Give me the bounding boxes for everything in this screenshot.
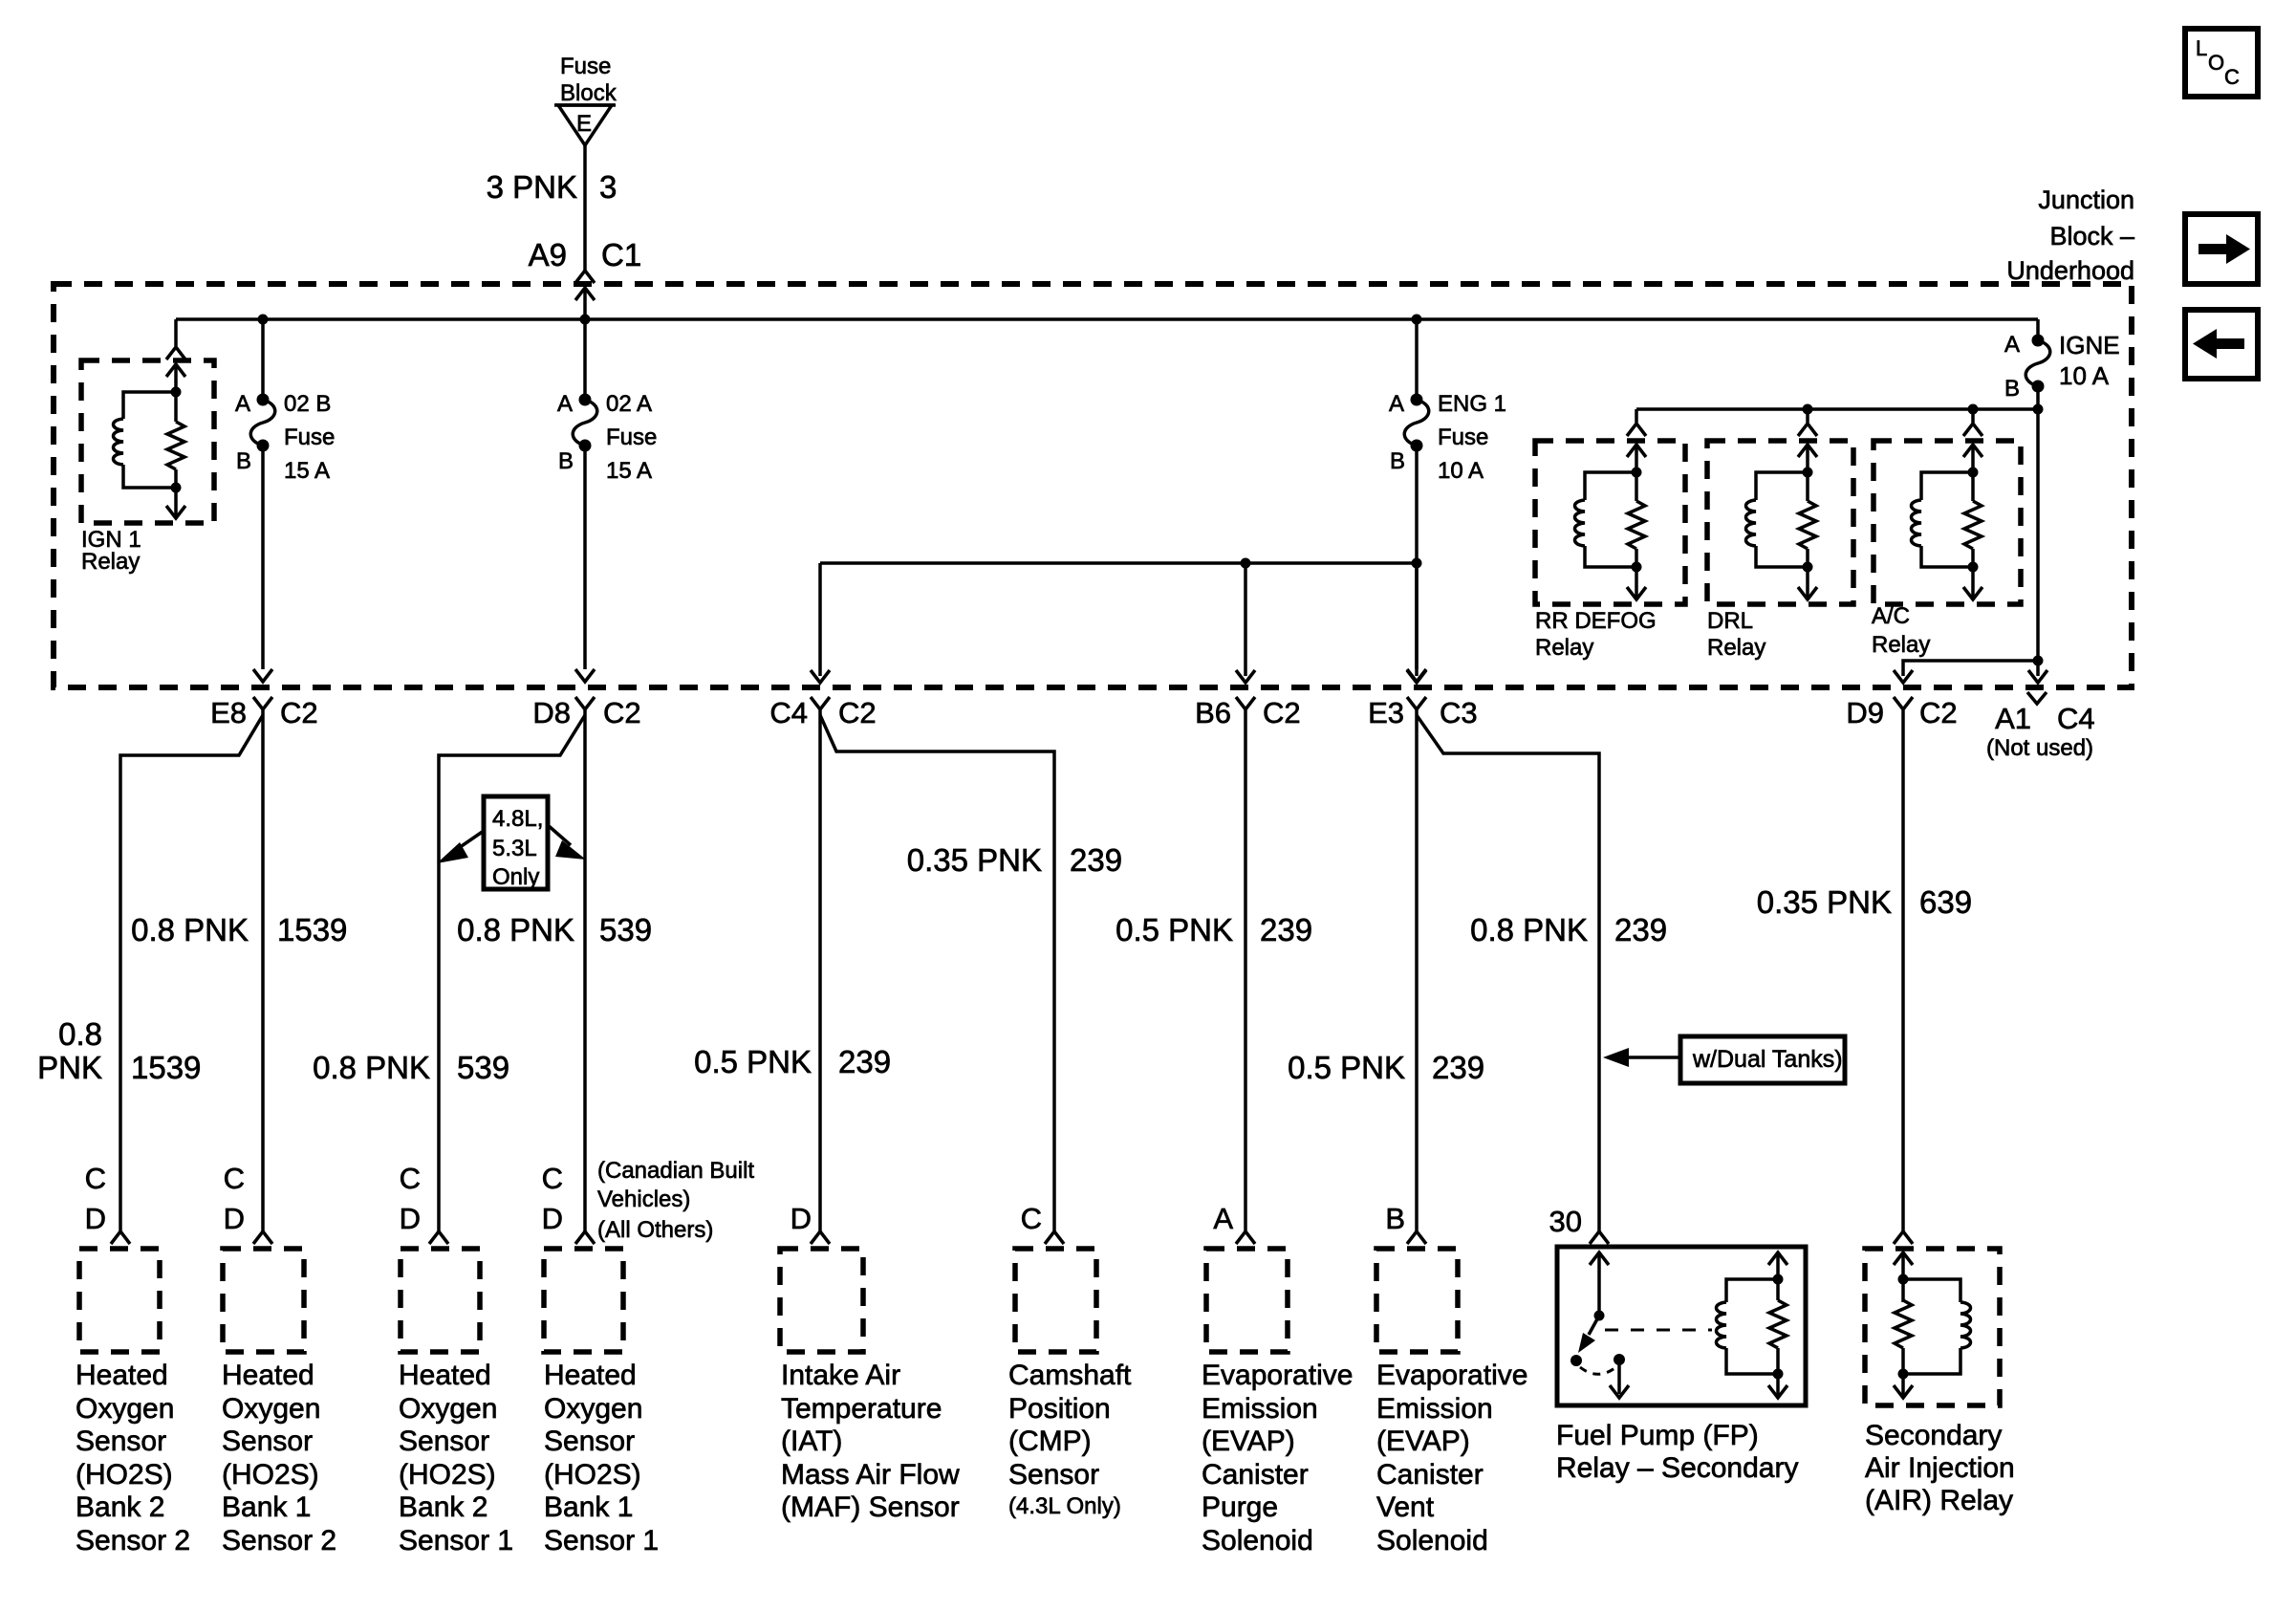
svg-text:639: 639 <box>1919 884 1972 920</box>
svg-text:10 A: 10 A <box>1438 458 1484 484</box>
svg-text:15 A: 15 A <box>606 458 652 484</box>
svg-text:Oxygen: Oxygen <box>544 1393 642 1425</box>
sensor entry chevron HO2S B1S1 <box>575 1231 595 1244</box>
svg-text:D: D <box>224 1202 245 1235</box>
connector A9 C1 labels <box>529 237 642 272</box>
svg-text:3 PNK: 3 PNK <box>487 169 577 205</box>
svg-text:Sensor: Sensor <box>222 1426 313 1457</box>
svg-text:3: 3 <box>599 169 617 205</box>
svg-text:239: 239 <box>1432 1050 1484 1085</box>
svg-text:Emission: Emission <box>1376 1393 1493 1425</box>
svg-text:RR DEFOG: RR DEFOG <box>1535 608 1657 634</box>
svg-text:Sensor: Sensor <box>399 1426 489 1457</box>
wire E3 to EVAP vent solenoid (straight) <box>1415 715 1419 1231</box>
svg-text:(MAF) Sensor: (MAF) Sensor <box>781 1491 960 1523</box>
svg-text:Bank 1: Bank 1 <box>222 1491 311 1523</box>
AIR relay internals <box>1894 1252 1971 1398</box>
RR DEFOG relay internals <box>1575 445 1647 599</box>
svg-text:30: 30 <box>1549 1205 1582 1238</box>
node bus to 02B fuse <box>258 315 269 325</box>
svg-text:ENG 1: ENG 1 <box>1438 391 1506 417</box>
connector D9/C2 labels <box>1846 696 1957 729</box>
IGN 1 relay internals <box>114 364 186 518</box>
relay entry chevron AIR <box>1894 1231 1913 1244</box>
svg-text:B: B <box>2004 376 2020 402</box>
svg-text:C2: C2 <box>838 696 877 729</box>
svg-text:B: B <box>1390 448 1405 474</box>
svg-text:Sensor 2: Sensor 2 <box>222 1525 336 1557</box>
svg-text:Sensor 2: Sensor 2 <box>76 1525 190 1557</box>
svg-text:Mass Air Flow: Mass Air Flow <box>781 1459 960 1491</box>
svg-text:0.5 PNK: 0.5 PNK <box>1288 1050 1405 1085</box>
wire drop to C4 connector <box>811 563 830 683</box>
svg-text:(EVAP): (EVAP) <box>1376 1426 1470 1457</box>
EVAP vent solenoid dashed box <box>1376 1249 1458 1352</box>
wire bus corner down to IGN 1 relay <box>166 319 185 359</box>
wire label 0.5 PNK 239 (IAT run) <box>694 1044 891 1079</box>
wire label 0.8 PNK 539 (B2S1 run) <box>313 1050 509 1085</box>
svg-text:15 A: 15 A <box>284 458 330 484</box>
svg-text:A: A <box>1389 391 1404 417</box>
AIR relay label <box>1865 1420 2015 1516</box>
svg-text:C: C <box>224 1162 245 1195</box>
svg-text:A: A <box>557 391 573 417</box>
connector E8/C2 labels <box>210 696 318 729</box>
fuse 02 A 15 A <box>557 319 657 682</box>
svg-text:Vehicles): Vehicles) <box>597 1186 690 1212</box>
fuse ENG 1 10 A <box>1389 319 1506 682</box>
svg-text:Emission: Emission <box>1202 1393 1318 1425</box>
svg-text:Oxygen: Oxygen <box>76 1393 174 1425</box>
svg-text:Relay: Relay <box>1535 635 1593 661</box>
HO2S bank1 sensor2 dashed box <box>223 1249 304 1352</box>
main ignition bus wire <box>176 317 2038 321</box>
svg-text:Bank 2: Bank 2 <box>76 1491 164 1523</box>
svg-text:Evaporative: Evaporative <box>1202 1360 1353 1391</box>
svg-text:Fuel Pump (FP): Fuel Pump (FP) <box>1556 1420 1759 1451</box>
svg-text:Sensor: Sensor <box>544 1426 635 1457</box>
svg-text:(All Others): (All Others) <box>597 1217 713 1243</box>
wire drop to A1 connector <box>2028 661 2047 683</box>
wire drop to A/C relay <box>1963 409 1982 436</box>
svg-text:DRL: DRL <box>1707 608 1753 634</box>
svg-text:A/C: A/C <box>1872 603 1910 629</box>
svg-text:w/Dual Tanks): w/Dual Tanks) <box>1692 1046 1843 1073</box>
svg-text:Fuse: Fuse <box>284 425 335 450</box>
svg-text:C: C <box>1021 1202 1042 1235</box>
svg-text:Block –: Block – <box>2049 222 2134 250</box>
FP relay coil <box>1717 1252 1788 1398</box>
IAT/MAF sensor dashed box <box>780 1249 863 1352</box>
svg-text:0.8 PNK: 0.8 PNK <box>1470 912 1588 947</box>
svg-text:C: C <box>2224 65 2240 89</box>
svg-text:Vent: Vent <box>1376 1491 1435 1523</box>
svg-text:0.8 PNK: 0.8 PNK <box>457 912 574 947</box>
note Canadian Built / All Others <box>597 1158 754 1243</box>
wire label 0.8 PNK 1539 (B2S2 run) <box>37 1016 201 1085</box>
HO2S bank2 sensor1 dashed box <box>401 1249 480 1352</box>
svg-text:539: 539 <box>599 912 652 947</box>
svg-text:B: B <box>558 448 574 474</box>
CMP sensor label <box>1008 1360 1132 1519</box>
connector D9/C2 fork <box>1894 697 1913 715</box>
svg-text:Temperature: Temperature <box>781 1393 942 1425</box>
svg-text:(HO2S): (HO2S) <box>76 1459 173 1491</box>
svg-text:(Canadian Built: (Canadian Built <box>597 1158 754 1184</box>
left arrow box icon <box>2185 310 2258 379</box>
HO2S bank2 sensor2 dashed box <box>79 1249 160 1352</box>
sensor entry chevron EVAP vent <box>1407 1231 1426 1244</box>
svg-text:10 A: 10 A <box>2059 361 2110 390</box>
wire C4 to CMP sensor (branch right) <box>820 715 1054 1231</box>
svg-text:Secondary: Secondary <box>1865 1420 2002 1451</box>
svg-text:Bank 1: Bank 1 <box>544 1491 633 1523</box>
sensor entry chevron HO2S B2S1 <box>429 1231 448 1244</box>
D9 branch wire from IGNE <box>1894 656 2044 684</box>
svg-text:1539: 1539 <box>277 912 347 947</box>
HO2S bank1 sensor1 label <box>544 1360 659 1557</box>
node bus to ENG1 fuse <box>1412 315 1422 325</box>
svg-text:Block: Block <box>560 80 617 106</box>
svg-text:(HO2S): (HO2S) <box>544 1459 641 1491</box>
svg-text:C: C <box>400 1162 421 1195</box>
svg-text:Position: Position <box>1008 1393 1111 1425</box>
IAT/MAF sensor label <box>781 1360 960 1523</box>
svg-text:Sensor 1: Sensor 1 <box>399 1525 513 1557</box>
svg-text:A: A <box>2004 332 2020 358</box>
connector C4/C2 fork <box>811 697 830 715</box>
svg-text:C4: C4 <box>769 696 808 729</box>
svg-text:D: D <box>791 1202 812 1235</box>
svg-text:Sensor 1: Sensor 1 <box>544 1525 659 1557</box>
wire C4 to IAT/MAF sensor (straight) <box>818 715 822 1231</box>
svg-text:C2: C2 <box>1919 696 1958 729</box>
svg-text:239: 239 <box>1070 842 1122 878</box>
svg-text:D8: D8 <box>532 696 571 729</box>
svg-text:(AIR) Relay: (AIR) Relay <box>1865 1485 2013 1516</box>
RR DEFOG relay label <box>1535 608 1657 661</box>
svg-text:Fuse: Fuse <box>606 425 657 450</box>
svg-text:4.8L,: 4.8L, <box>492 806 543 832</box>
svg-text:(IAT): (IAT) <box>781 1426 842 1457</box>
svg-text:A9: A9 <box>529 237 567 272</box>
svg-text:O: O <box>2208 51 2224 75</box>
HO2S bank1 sensor1 dashed box <box>544 1249 623 1352</box>
svg-text:(CMP): (CMP) <box>1008 1426 1092 1457</box>
FP relay switch <box>1570 1252 1712 1398</box>
connector D8/C2 labels <box>532 696 640 729</box>
svg-text:D: D <box>542 1202 563 1235</box>
svg-text:239: 239 <box>838 1044 891 1079</box>
wire label 0.35 PNK 639 (D9 run) <box>1757 884 1972 920</box>
Junction Block Underhood label <box>2006 185 2134 285</box>
svg-text:C: C <box>542 1162 563 1195</box>
svg-text:Relay: Relay <box>1872 632 1930 658</box>
svg-text:239: 239 <box>1260 912 1312 947</box>
wire label 3 PNK 3 <box>487 169 617 205</box>
svg-text:Camshaft: Camshaft <box>1008 1360 1132 1391</box>
wire drop to E3 connector <box>1407 563 1426 683</box>
connector E3/C3 fork <box>1407 697 1426 715</box>
svg-text:1539: 1539 <box>131 1050 201 1085</box>
svg-text:Junction: Junction <box>2038 185 2134 214</box>
svg-text:Oxygen: Oxygen <box>399 1393 497 1425</box>
svg-text:C2: C2 <box>603 696 641 729</box>
svg-text:Sensor: Sensor <box>1008 1459 1099 1491</box>
svg-text:Relay: Relay <box>1707 635 1765 661</box>
svg-text:IGNE: IGNE <box>2059 331 2120 359</box>
svg-text:D: D <box>85 1202 106 1235</box>
svg-text:(Not used): (Not used) <box>1986 735 2093 761</box>
connector B6/C2 labels <box>1195 696 1301 729</box>
sensor entry chevron HO2S B2S2 <box>111 1231 130 1244</box>
sensor entry chevron IAT/MAF <box>811 1231 830 1244</box>
svg-text:Heated: Heated <box>544 1360 637 1391</box>
fuse IGNE 10 A <box>2004 319 2120 661</box>
sensor entry chevron EVAP purge <box>1236 1231 1255 1244</box>
svg-text:Heated: Heated <box>222 1360 314 1391</box>
svg-text:Solenoid: Solenoid <box>1202 1525 1313 1557</box>
relay entry chevron FP 30 <box>1590 1231 1609 1244</box>
svg-text:A: A <box>235 391 250 417</box>
wire E8 to HO2S bank2 sensor2 (branch) <box>120 715 263 1231</box>
wire label 0.8 PNK 1539 (B1S2 run) <box>131 912 347 947</box>
svg-text:02 B: 02 B <box>284 391 331 417</box>
IGN 1 relay label <box>81 527 141 575</box>
right arrow box icon <box>2185 214 2258 284</box>
arrow into junction block at A9/C1 <box>575 288 595 319</box>
relay feed bus from IGNE <box>1636 404 2044 415</box>
svg-text:B: B <box>236 448 251 474</box>
svg-text:E: E <box>576 111 592 137</box>
sensor entry chevron HO2S B1S2 <box>253 1231 272 1244</box>
HO2S bank2 sensor2 label <box>76 1360 190 1557</box>
svg-text:E8: E8 <box>210 696 247 729</box>
svg-text:0.35 PNK: 0.35 PNK <box>907 842 1042 878</box>
ENG1 distribution bus to C4 B6 E3 <box>820 558 1422 569</box>
RR DEFOG relay dashed box <box>1535 441 1685 604</box>
svg-text:Oxygen: Oxygen <box>222 1393 320 1425</box>
pin labels C D (B2S1) <box>400 1162 421 1235</box>
connector B6/C2 fork <box>1236 697 1255 715</box>
connector C4/C2 labels <box>769 696 876 729</box>
svg-text:(4.3L Only): (4.3L Only) <box>1008 1493 1121 1519</box>
EVAP purge solenoid label <box>1202 1360 1353 1557</box>
svg-text:(EVAP): (EVAP) <box>1202 1426 1295 1457</box>
wire B6 to EVAP purge solenoid <box>1244 715 1247 1231</box>
svg-text:(HO2S): (HO2S) <box>222 1459 319 1491</box>
IGN 1 relay dashed box <box>81 360 214 523</box>
svg-text:239: 239 <box>1614 912 1667 947</box>
wire 3 PNK 3 from fuse block to junction block <box>583 145 587 271</box>
svg-text:Sensor: Sensor <box>76 1426 166 1457</box>
svg-text:Relay: Relay <box>81 549 140 575</box>
svg-text:Relay – Secondary: Relay – Secondary <box>1556 1452 1798 1484</box>
svg-text:Bank 2: Bank 2 <box>399 1491 487 1523</box>
svg-text:0.5 PNK: 0.5 PNK <box>694 1044 812 1079</box>
svg-text:D: D <box>400 1202 421 1235</box>
connector D8/C2 fork <box>575 697 595 715</box>
connector chevron at A9/C1 <box>575 271 595 283</box>
svg-text:E3: E3 <box>1368 696 1404 729</box>
svg-text:C4: C4 <box>2057 702 2095 735</box>
LOC box icon <box>2185 29 2258 97</box>
wire label 0.5 PNK 239 (B6 run) <box>1116 912 1312 947</box>
svg-text:Only: Only <box>492 864 539 890</box>
svg-text:Fuse: Fuse <box>560 54 611 79</box>
CMP sensor dashed box <box>1015 1249 1096 1352</box>
svg-text:0.8 PNK: 0.8 PNK <box>313 1050 430 1085</box>
wire label 0.8 PNK 539 (B1S1 run) <box>457 912 652 947</box>
wire D9 to AIR relay <box>1901 715 1905 1231</box>
EVAP vent solenoid label <box>1376 1360 1527 1557</box>
w/Dual Tanks callout <box>1603 1036 1845 1083</box>
pin labels C D (B1S2) <box>224 1162 245 1235</box>
wire E3 to FP relay (branch right) <box>1417 715 1599 1231</box>
A/C relay label <box>1872 603 1930 658</box>
sensor entry chevron CMP <box>1045 1231 1064 1244</box>
DRL relay label <box>1707 608 1765 661</box>
connector E3/C3 labels <box>1368 696 1478 729</box>
node bus to 02A fuse / A9 feed <box>580 315 591 325</box>
connector A1/C4 not used <box>1986 692 2095 761</box>
svg-text:(HO2S): (HO2S) <box>399 1459 496 1491</box>
svg-text:Heated: Heated <box>76 1360 168 1391</box>
wire drop to B6 connector <box>1236 563 1255 683</box>
svg-text:D9: D9 <box>1846 696 1884 729</box>
junction block dashed border <box>54 284 2132 687</box>
svg-text:Canister: Canister <box>1376 1459 1484 1491</box>
fuse block label <box>560 54 617 106</box>
wire drop to DRL relay <box>1798 409 1817 436</box>
svg-text:Evaporative: Evaporative <box>1376 1360 1527 1391</box>
pin labels C D (B2S2) <box>85 1162 106 1235</box>
AIR relay dashed box <box>1865 1249 2000 1405</box>
svg-text:A1: A1 <box>1995 702 2031 735</box>
svg-text:02 A: 02 A <box>606 391 652 417</box>
Fuel Pump relay box <box>1557 1247 1806 1405</box>
A/C relay internals <box>1912 445 1983 599</box>
wire D8 to HO2S bank1 sensor1 (straight) <box>583 715 587 1231</box>
svg-text:Intake Air: Intake Air <box>781 1360 900 1391</box>
pin labels C D (B1S1) <box>542 1162 563 1235</box>
svg-text:0.8 PNK: 0.8 PNK <box>131 912 249 947</box>
svg-text:Air Injection: Air Injection <box>1865 1452 2015 1484</box>
connector E8/C2 fork <box>253 697 272 715</box>
svg-text:Underhood: Underhood <box>2006 256 2134 285</box>
wire label 0.35 PNK 239 (CMP run) <box>907 842 1122 878</box>
A/C relay dashed box <box>1874 441 2021 604</box>
svg-text:0.35 PNK: 0.35 PNK <box>1757 884 1892 920</box>
svg-text:B6: B6 <box>1195 696 1231 729</box>
wire D8 to HO2S bank2 sensor1 (branch) <box>439 715 585 1231</box>
wire label 0.5 PNK 239 (E3 run) <box>1288 1050 1484 1085</box>
EVAP purge solenoid dashed box <box>1206 1249 1288 1352</box>
svg-text:C1: C1 <box>601 237 641 272</box>
fuse block triangle E <box>554 105 616 145</box>
svg-text:C2: C2 <box>280 696 318 729</box>
DRL relay dashed box <box>1707 441 1853 604</box>
wire label 0.8 PNK 239 (FP run) <box>1470 912 1667 947</box>
svg-text:L: L <box>2196 36 2207 60</box>
svg-text:5.3L: 5.3L <box>492 836 537 861</box>
svg-text:C3: C3 <box>1440 696 1478 729</box>
svg-text:C2: C2 <box>1263 696 1301 729</box>
4.8L 5.3L Only callout box <box>437 796 586 890</box>
wire E8 to HO2S bank1 sensor2 (straight) <box>261 715 265 1231</box>
Fuel Pump relay label <box>1556 1420 1798 1484</box>
svg-text:Canister: Canister <box>1202 1459 1309 1491</box>
svg-text:0.8: 0.8 <box>58 1016 102 1052</box>
svg-text:C: C <box>85 1162 106 1195</box>
svg-text:Heated: Heated <box>399 1360 491 1391</box>
svg-text:Fuse: Fuse <box>1438 425 1488 450</box>
svg-text:Solenoid: Solenoid <box>1376 1525 1488 1557</box>
svg-text:Purge: Purge <box>1202 1491 1278 1523</box>
svg-text:A: A <box>1213 1202 1233 1235</box>
svg-text:PNK: PNK <box>37 1050 102 1085</box>
svg-text:539: 539 <box>457 1050 509 1085</box>
DRL relay internals <box>1746 445 1818 599</box>
wire drop to RR DEFOG relay <box>1627 409 1646 436</box>
fuse 02 B 15 A <box>235 319 335 682</box>
svg-text:0.5 PNK: 0.5 PNK <box>1116 912 1233 947</box>
HO2S bank1 sensor2 label <box>222 1360 336 1557</box>
HO2S bank2 sensor1 label <box>399 1360 513 1557</box>
svg-text:B: B <box>1385 1202 1405 1235</box>
